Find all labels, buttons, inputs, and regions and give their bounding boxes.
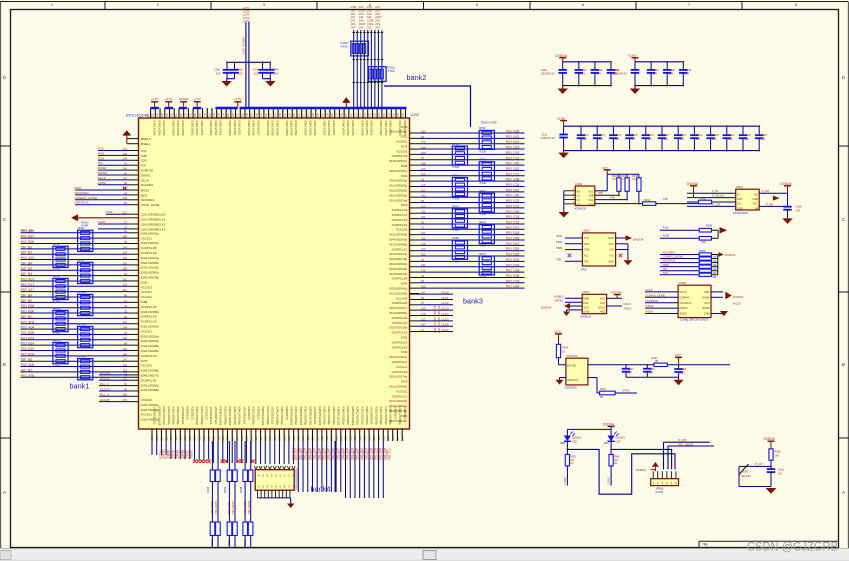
svg-text:PIO_D31: PIO_D31 bbox=[506, 204, 520, 208]
svg-text:IO2/LVDS6: IO2/LVDS6 bbox=[157, 121, 161, 136]
svg-text:46: 46 bbox=[124, 293, 127, 297]
svg-text:2V5: 2V5 bbox=[375, 5, 380, 9]
svg-text:TDO: TDO bbox=[556, 240, 563, 244]
svg-text:R309: R309 bbox=[699, 249, 706, 253]
svg-text:SW-KEY: SW-KEY bbox=[741, 474, 751, 478]
svg-text:IO2/LVDS3: IO2/LVDS3 bbox=[190, 121, 194, 136]
svg-text:229: 229 bbox=[263, 436, 267, 441]
svg-text:IO2/LVDS45p: IO2/LVDS45p bbox=[365, 407, 369, 426]
svg-text:IO3/LVDS56p: IO3/LVDS56p bbox=[171, 407, 175, 426]
svg-text:102: 102 bbox=[421, 317, 426, 321]
svg-text:33: 33 bbox=[421, 274, 424, 278]
svg-text:IO3/LVDS6: IO3/LVDS6 bbox=[351, 121, 355, 136]
svg-text:CSDN @GJZGRB: CSDN @GJZGRB bbox=[747, 539, 838, 553]
svg-text:IO2/LVDS61p: IO2/LVDS61p bbox=[389, 287, 408, 291]
svg-text:IO4/LVDS33p: IO4/LVDS33p bbox=[389, 262, 408, 266]
svg-text:CLK7: CLK7 bbox=[442, 328, 449, 332]
svg-text:PIO_A30: PIO_A30 bbox=[21, 374, 34, 378]
svg-text:201: 201 bbox=[421, 291, 426, 295]
svg-text:JTAG: JTAG bbox=[580, 267, 587, 271]
svg-text:IO4/LVDS6: IO4/LVDS6 bbox=[389, 121, 393, 136]
svg-text:IO40: IO40 bbox=[401, 282, 408, 286]
svg-text:TCK: TCK bbox=[584, 236, 589, 240]
svg-text:PIO_C15: PIO_C15 bbox=[506, 215, 520, 219]
svg-text:170: 170 bbox=[421, 269, 426, 273]
svg-text:104: 104 bbox=[359, 25, 364, 29]
svg-text:IO/DPCLK8: IO/DPCLK8 bbox=[392, 301, 408, 305]
svg-text:142: 142 bbox=[164, 436, 168, 441]
svg-text:109: 109 bbox=[123, 167, 128, 171]
svg-text:VCC: VCC bbox=[609, 242, 615, 246]
svg-text:IO3/LVDS7: IO3/LVDS7 bbox=[365, 121, 369, 136]
svg-text:IO3/LVDS5: IO3/LVDS5 bbox=[403, 121, 407, 136]
svg-text:194: 194 bbox=[254, 436, 258, 441]
svg-text:140: 140 bbox=[123, 176, 128, 180]
svg-text:C315: C315 bbox=[631, 133, 638, 137]
svg-text:+2.5V: +2.5V bbox=[243, 19, 250, 23]
svg-text:CLK0: CLK0 bbox=[442, 291, 449, 295]
svg-text:IO4/LVDS52p: IO4/LVDS52p bbox=[384, 407, 388, 426]
svg-text:GND OUT: GND OUT bbox=[567, 379, 579, 382]
svg-text:+2.5V: +2.5V bbox=[165, 97, 173, 101]
svg-text:IO2/LVDS18p: IO2/LVDS18p bbox=[389, 326, 408, 330]
svg-text:104: 104 bbox=[123, 256, 128, 260]
svg-text:87: 87 bbox=[421, 301, 424, 305]
svg-text:R315: R315 bbox=[206, 486, 210, 493]
svg-text:PLL_2: PLL_2 bbox=[100, 382, 109, 386]
svg-text:IO/DPCLK3: IO/DPCLK3 bbox=[392, 223, 408, 227]
svg-text:LED1: LED1 bbox=[607, 477, 611, 485]
svg-text:211: 211 bbox=[311, 436, 315, 441]
svg-text:IO/DPCLK501: IO/DPCLK501 bbox=[299, 407, 303, 426]
svg-text:IO1/LVDS14p: IO1/LVDS14p bbox=[389, 198, 408, 202]
svg-text:209: 209 bbox=[249, 436, 253, 441]
svg-text:IO3/LVDS6: IO3/LVDS6 bbox=[266, 121, 270, 136]
svg-text:LED: LED bbox=[616, 439, 621, 443]
svg-text:100UF/6.3V: 100UF/6.3V bbox=[613, 72, 627, 76]
svg-text:0R: 0R bbox=[600, 396, 603, 399]
svg-text:IO960123: IO960123 bbox=[285, 407, 289, 421]
svg-text:D: D bbox=[842, 75, 845, 80]
svg-text:C334: C334 bbox=[367, 22, 374, 26]
svg-text:DATA0: DATA0 bbox=[555, 298, 564, 302]
svg-text:IO4/LVDS1: IO4/LVDS1 bbox=[195, 121, 199, 136]
svg-text:12: 12 bbox=[124, 299, 127, 303]
svg-text:A: A bbox=[842, 490, 845, 495]
svg-text:104: 104 bbox=[359, 15, 364, 19]
svg-text:IO75: IO75 bbox=[141, 359, 148, 363]
svg-text:4*10K: 4*10K bbox=[479, 212, 486, 216]
svg-text:IO3/LVDS32p: IO3/LVDS32p bbox=[233, 407, 237, 426]
svg-text:104: 104 bbox=[649, 372, 654, 375]
svg-text:209: 209 bbox=[421, 151, 426, 155]
svg-text:143: 143 bbox=[123, 245, 128, 249]
svg-text:A: A bbox=[3, 490, 6, 495]
svg-text:PIO_D12: PIO_D12 bbox=[506, 167, 520, 171]
svg-text:A2: A2 bbox=[577, 198, 581, 202]
svg-text:bank4: bank4 bbox=[311, 484, 331, 493]
svg-text:R302: R302 bbox=[600, 388, 607, 391]
svg-text:RP318: RP318 bbox=[78, 322, 86, 326]
svg-text:IO2/LVDS70p: IO2/LVDS70p bbox=[323, 407, 327, 426]
svg-text:TCK: TCK bbox=[663, 271, 669, 275]
svg-text:VCCIO3: VCCIO3 bbox=[141, 285, 153, 289]
svg-text:VCCIO30123: VCCIO30123 bbox=[153, 407, 157, 425]
svg-text:127: 127 bbox=[287, 436, 291, 441]
svg-text:IO36: IO36 bbox=[401, 350, 408, 354]
svg-text:162: 162 bbox=[358, 436, 362, 441]
svg-text:IO/DPCLK801: IO/DPCLK801 bbox=[351, 407, 355, 426]
svg-text:69: 69 bbox=[124, 201, 127, 205]
svg-text:IO1/LVDS96p: IO1/LVDS96p bbox=[389, 242, 408, 246]
svg-text:IO2/LVDS68p: IO2/LVDS68p bbox=[141, 388, 160, 392]
svg-text:DCLK: DCLK bbox=[646, 288, 653, 292]
svg-text:106: 106 bbox=[188, 436, 192, 441]
svg-text:P_DO: P_DO bbox=[762, 189, 769, 193]
svg-text:ASD: ASD bbox=[600, 310, 606, 314]
svg-text:CONFIG_DONE: CONFIG_DONE bbox=[75, 196, 98, 200]
svg-text:4*10K: 4*10K bbox=[452, 197, 459, 201]
svg-text:IO/DPCLK7: IO/DPCLK7 bbox=[392, 360, 408, 364]
svg-text:C310: C310 bbox=[375, 15, 382, 19]
svg-text:IO/DPCLK301: IO/DPCLK301 bbox=[318, 407, 322, 426]
svg-text:179: 179 bbox=[179, 436, 183, 441]
svg-text:PIO_D09: PIO_D09 bbox=[506, 237, 520, 241]
svg-text:MCS0: MCS0 bbox=[702, 306, 710, 310]
svg-text:IO/DPCLK8: IO/DPCLK8 bbox=[141, 251, 157, 255]
svg-text:202: 202 bbox=[123, 393, 128, 397]
svg-text:IO3/LVDS9: IO3/LVDS9 bbox=[275, 121, 279, 136]
svg-text:C308: C308 bbox=[685, 68, 692, 72]
svg-text:139: 139 bbox=[306, 436, 310, 441]
svg-text:IO3/LVDS89p: IO3/LVDS89p bbox=[266, 407, 270, 426]
svg-text:190: 190 bbox=[123, 352, 128, 356]
svg-text:4*10K: 4*10K bbox=[53, 300, 60, 304]
svg-text:VCCIO4: VCCIO4 bbox=[396, 228, 408, 232]
svg-text:C317: C317 bbox=[580, 68, 587, 72]
svg-text:VCC: VCC bbox=[583, 305, 589, 309]
svg-text:126: 126 bbox=[221, 436, 225, 441]
svg-text:C304: C304 bbox=[649, 368, 656, 371]
svg-text:IO3/LVDS84p: IO3/LVDS84p bbox=[167, 407, 171, 426]
svg-text:IO3/LVDS1: IO3/LVDS1 bbox=[238, 121, 242, 136]
svg-text:U300: U300 bbox=[679, 281, 687, 285]
svg-text:91: 91 bbox=[124, 229, 127, 233]
svg-text:209: 209 bbox=[421, 129, 426, 133]
svg-text:60: 60 bbox=[124, 272, 127, 276]
svg-text:10K: 10K bbox=[775, 454, 780, 457]
svg-text:IO/DPCLK3: IO/DPCLK3 bbox=[392, 213, 408, 217]
svg-text:IO1/LVDS45p: IO1/LVDS45p bbox=[223, 407, 227, 426]
svg-text:1K: 1K bbox=[562, 349, 565, 353]
svg-text:DI/4_A0: DI/4_A0 bbox=[21, 229, 33, 233]
svg-text:VCCIO2: VCCIO2 bbox=[396, 149, 408, 153]
svg-text:R300: R300 bbox=[562, 345, 569, 349]
svg-text:ASDO: ASDO bbox=[646, 310, 654, 314]
svg-text:187: 187 bbox=[268, 436, 272, 441]
svg-text:IO/MCS0: IO/MCS0 bbox=[141, 169, 154, 173]
svg-text:IO780123: IO780123 bbox=[256, 407, 260, 421]
svg-text:127: 127 bbox=[183, 436, 187, 441]
svg-text:RCS0: RCS0 bbox=[733, 301, 741, 305]
svg-text:110: 110 bbox=[235, 436, 239, 441]
svg-text:C311: C311 bbox=[596, 68, 603, 72]
svg-text:PIO_A05: PIO_A05 bbox=[21, 363, 34, 367]
svg-text:PIO_D15: PIO_D15 bbox=[506, 253, 520, 257]
svg-text:IO1/LVDS59p: IO1/LVDS59p bbox=[389, 291, 408, 295]
svg-text:IO2/LVDS78p: IO2/LVDS78p bbox=[389, 257, 408, 261]
svg-text:178: 178 bbox=[421, 312, 426, 316]
svg-text:26: 26 bbox=[421, 279, 424, 283]
svg-text:141: 141 bbox=[174, 436, 178, 441]
svg-text:104: 104 bbox=[351, 25, 356, 29]
svg-text:PIO_D24: PIO_D24 bbox=[506, 263, 520, 267]
svg-text:10K: 10K bbox=[712, 276, 717, 279]
svg-text:LED0: LED0 bbox=[563, 477, 567, 485]
svg-text:C310: C310 bbox=[613, 68, 620, 72]
svg-text:GND: GND bbox=[583, 310, 589, 314]
svg-text:R348: R348 bbox=[239, 486, 243, 493]
svg-text:PIO_B13: PIO_B13 bbox=[21, 283, 34, 287]
svg-text:PIO_D08: PIO_D08 bbox=[506, 178, 520, 182]
svg-text:122: 122 bbox=[363, 436, 367, 441]
svg-text:DIF_B0: DIF_B0 bbox=[21, 299, 32, 303]
svg-text:0R: 0R bbox=[655, 360, 658, 363]
svg-text:180: 180 bbox=[123, 235, 128, 239]
svg-text:78: 78 bbox=[124, 331, 127, 335]
svg-text:U401: U401 bbox=[736, 185, 744, 189]
svg-text:73: 73 bbox=[124, 371, 127, 375]
svg-text:206: 206 bbox=[123, 152, 128, 156]
svg-text:104: 104 bbox=[367, 12, 372, 16]
svg-text:19: 19 bbox=[124, 225, 127, 229]
svg-text:PIO_A17: PIO_A17 bbox=[21, 288, 34, 292]
svg-text:SCL: SCL bbox=[589, 198, 595, 202]
svg-text:IO1/LVDS94p: IO1/LVDS94p bbox=[389, 233, 408, 237]
svg-text:MCE: MCE bbox=[141, 193, 148, 197]
svg-text:233: 233 bbox=[123, 196, 128, 200]
svg-text:170: 170 bbox=[123, 147, 128, 151]
svg-text:VCCIO1: VCCIO1 bbox=[141, 329, 153, 333]
svg-text:RP36: RP36 bbox=[78, 258, 85, 262]
svg-text:IO/DPCLK9: IO/DPCLK9 bbox=[392, 370, 408, 374]
svg-text:N.C: N.C bbox=[610, 254, 615, 258]
svg-text:MCS0: MCS0 bbox=[98, 166, 107, 170]
svg-text:PIO57: PIO57 bbox=[189, 450, 193, 458]
svg-text:P_CS0: P_CS0 bbox=[712, 202, 721, 206]
svg-text:+2.5V: +2.5V bbox=[234, 97, 242, 101]
svg-text:IO/DPCLK0: IO/DPCLK0 bbox=[392, 321, 408, 325]
svg-text:SCK: SCK bbox=[737, 197, 743, 201]
svg-text:110: 110 bbox=[123, 347, 128, 351]
svg-text:IO4/LVDS77p: IO4/LVDS77p bbox=[141, 374, 160, 378]
svg-text:R3010 4*10R: R3010 4*10R bbox=[481, 121, 497, 125]
svg-text:IO/DPCLK5: IO/DPCLK5 bbox=[141, 354, 157, 358]
svg-text:IO2/LVDS6: IO2/LVDS6 bbox=[171, 121, 175, 136]
svg-text:LED: LED bbox=[572, 439, 577, 443]
svg-text:PIO_D21: PIO_D21 bbox=[506, 226, 520, 230]
svg-text:TMS: TMS bbox=[584, 248, 590, 252]
svg-text:60: 60 bbox=[124, 387, 127, 391]
svg-text:RP45: RP45 bbox=[452, 142, 459, 146]
svg-text:VCCIO40123: VCCIO40123 bbox=[181, 407, 185, 425]
svg-text:DCLK: DCLK bbox=[598, 305, 605, 309]
svg-text:186: 186 bbox=[391, 436, 395, 441]
svg-text:IO4/LVDS84p: IO4/LVDS84p bbox=[294, 407, 298, 426]
svg-text:PIO_LED01: PIO_LED01 bbox=[679, 442, 694, 446]
svg-text:113: 113 bbox=[421, 183, 426, 187]
svg-text:196: 196 bbox=[123, 336, 128, 340]
svg-text:180: 180 bbox=[123, 267, 128, 271]
svg-text:C324: C324 bbox=[359, 8, 366, 12]
svg-text:71: 71 bbox=[421, 226, 424, 230]
svg-text:90: 90 bbox=[421, 135, 424, 139]
svg-text:IO700123: IO700123 bbox=[205, 407, 209, 421]
svg-text:IO/DPCLK8: IO/DPCLK8 bbox=[392, 316, 408, 320]
svg-text:XTAL300: XTAL300 bbox=[566, 354, 578, 358]
svg-text:IO/DPCLK9: IO/DPCLK9 bbox=[392, 218, 408, 222]
svg-text:RP42: RP42 bbox=[479, 189, 486, 193]
svg-text:A1: A1 bbox=[577, 194, 581, 198]
svg-text:99: 99 bbox=[421, 220, 424, 224]
svg-text:R3011: R3011 bbox=[388, 66, 396, 70]
svg-text:C328: C328 bbox=[359, 22, 366, 26]
svg-text:PIO_D22: PIO_D22 bbox=[506, 242, 520, 246]
svg-text:IO/DPCLK8: IO/DPCLK8 bbox=[392, 154, 408, 158]
svg-text:IO2/LVDS8: IO2/LVDS8 bbox=[289, 121, 293, 136]
svg-text:IO2/LVDS79p: IO2/LVDS79p bbox=[162, 407, 166, 426]
svg-text:ADS1110A0: ADS1110A0 bbox=[733, 211, 748, 215]
svg-text:LED300: LED300 bbox=[572, 436, 582, 440]
svg-text:IO82: IO82 bbox=[401, 336, 408, 340]
svg-text:DVDDA: DVDDA bbox=[725, 253, 736, 257]
svg-text:CLKUSR/DBCLK0: CLKUSR/DBCLK0 bbox=[141, 213, 166, 217]
svg-text:C307: C307 bbox=[628, 368, 635, 371]
svg-text:19: 19 bbox=[124, 382, 127, 386]
svg-text:DVDDA: DVDDA bbox=[733, 295, 744, 299]
svg-text:IO3/LVDS41p: IO3/LVDS41p bbox=[141, 231, 160, 235]
svg-text:C: C bbox=[842, 217, 845, 222]
svg-text:4*10K: 4*10K bbox=[479, 181, 486, 185]
svg-text:IO3/LVDS61p: IO3/LVDS61p bbox=[389, 169, 408, 173]
svg-text:188: 188 bbox=[240, 436, 244, 441]
svg-text:RP41: RP41 bbox=[479, 158, 486, 162]
svg-text:196: 196 bbox=[197, 436, 201, 441]
svg-text:103: 103 bbox=[778, 472, 783, 475]
svg-text:PIO_CLK03 PIO_V4: PIO_CLK03 PIO_V4 bbox=[437, 305, 441, 333]
svg-text:107: 107 bbox=[396, 436, 400, 441]
svg-text:IO3/LVDS10p: IO3/LVDS10p bbox=[141, 256, 160, 260]
svg-text:NCONFIG: NCONFIG bbox=[75, 191, 90, 195]
svg-text:C300: C300 bbox=[541, 68, 548, 72]
svg-text:P_VB: P_VB bbox=[766, 202, 773, 206]
svg-text:C312: C312 bbox=[653, 68, 660, 72]
svg-text:VCC: VCC bbox=[753, 202, 759, 206]
svg-text:197: 197 bbox=[386, 436, 390, 441]
svg-text:C400: C400 bbox=[796, 205, 803, 209]
svg-text:DVDDA: DVDDA bbox=[633, 237, 644, 241]
svg-text:IO4/LVDS30p: IO4/LVDS30p bbox=[356, 407, 360, 426]
svg-text:RP321: RP321 bbox=[53, 338, 61, 342]
svg-text:210: 210 bbox=[292, 436, 296, 441]
svg-text:IO3/LVDS61p: IO3/LVDS61p bbox=[141, 334, 160, 338]
svg-text:142: 142 bbox=[123, 363, 128, 367]
svg-text:IO3/LVDS60p: IO3/LVDS60p bbox=[389, 355, 408, 359]
svg-text:198: 198 bbox=[421, 162, 426, 166]
svg-text:IO1/LVDS58p: IO1/LVDS58p bbox=[200, 407, 204, 426]
svg-text:151: 151 bbox=[123, 398, 128, 402]
svg-text:XTAL: XTAL bbox=[623, 389, 631, 393]
svg-text:VCCIO20123: VCCIO20123 bbox=[313, 407, 317, 425]
svg-text:MCE: MCE bbox=[75, 186, 82, 190]
svg-text:TMS: TMS bbox=[98, 151, 105, 155]
svg-text:IO/DPCLK8: IO/DPCLK8 bbox=[141, 246, 157, 250]
svg-text:GND: GND bbox=[704, 290, 710, 294]
svg-text:VCCIO30123: VCCIO30123 bbox=[242, 407, 246, 425]
svg-text:168: 168 bbox=[348, 436, 352, 441]
svg-text:104: 104 bbox=[664, 137, 669, 141]
svg-text:5.1K: 5.1K bbox=[612, 178, 617, 181]
svg-text:5: 5 bbox=[476, 3, 478, 7]
svg-text:IO2/LVDS95p: IO2/LVDS95p bbox=[176, 407, 180, 426]
svg-text:OSC5032: OSC5032 bbox=[565, 385, 578, 389]
svg-text:PIO_D18: PIO_D18 bbox=[506, 231, 520, 235]
svg-text:IO93: IO93 bbox=[401, 174, 408, 178]
svg-text:4*10R: 4*10R bbox=[81, 224, 88, 228]
svg-text:RP324: RP324 bbox=[78, 354, 86, 358]
svg-text:IO2/LVDS34p: IO2/LVDS34p bbox=[280, 407, 284, 426]
svg-text:PIO_B07: PIO_B07 bbox=[21, 336, 34, 340]
svg-text:TDO: TDO bbox=[584, 242, 589, 246]
svg-text:DVDDA: DVDDA bbox=[636, 468, 647, 472]
svg-text:2: 2 bbox=[157, 3, 159, 7]
svg-text:182: 182 bbox=[353, 436, 357, 441]
svg-text:D: D bbox=[3, 75, 6, 80]
svg-text:RP43: RP43 bbox=[479, 220, 486, 224]
svg-text:CLK2: CLK2 bbox=[442, 301, 449, 305]
svg-text:2V5: 2V5 bbox=[375, 22, 380, 26]
svg-text:129: 129 bbox=[169, 436, 173, 441]
svg-text:IO630123: IO630123 bbox=[403, 407, 407, 421]
svg-text:VCCIO1: VCCIO1 bbox=[141, 413, 153, 417]
svg-text:IO/DPCLK3: IO/DPCLK3 bbox=[392, 331, 408, 335]
svg-text:IO4/LVDS54p: IO4/LVDS54p bbox=[238, 407, 242, 426]
svg-text:D31: D31 bbox=[604, 441, 609, 445]
svg-text:4*10K: 4*10K bbox=[479, 244, 486, 248]
svg-text:DONE: DONE bbox=[702, 295, 710, 299]
svg-text:IO1/LVDS37p: IO1/LVDS37p bbox=[141, 241, 160, 245]
svg-text:IO1/LVDS8: IO1/LVDS8 bbox=[398, 121, 402, 136]
svg-text:119: 119 bbox=[212, 436, 216, 441]
svg-text:2V5: 2V5 bbox=[351, 19, 356, 23]
svg-text:103: 103 bbox=[273, 436, 277, 441]
svg-text:P300 HEADER10: P300 HEADER10 bbox=[295, 467, 299, 490]
svg-text:NCONFIG: NCONFIG bbox=[646, 299, 658, 303]
svg-text:IO2/LVDS2: IO2/LVDS2 bbox=[323, 121, 327, 136]
svg-text:IO18: IO18 bbox=[401, 380, 408, 384]
svg-text:IO840123: IO840123 bbox=[393, 407, 397, 421]
svg-text:C323: C323 bbox=[761, 133, 768, 137]
svg-text:PLL_4: PLL_4 bbox=[100, 393, 109, 397]
svg-text:104: 104 bbox=[628, 372, 633, 375]
svg-text:IO1/LVDS7: IO1/LVDS7 bbox=[256, 121, 260, 136]
svg-text:PIO_C00: PIO_C00 bbox=[506, 194, 520, 198]
svg-text:2V5: 2V5 bbox=[375, 12, 380, 16]
svg-text:PIO_C31: PIO_C31 bbox=[506, 183, 520, 187]
svg-text:2V5: 2V5 bbox=[359, 12, 364, 16]
svg-text:IO2/LVDS3: IO2/LVDS3 bbox=[209, 121, 213, 136]
svg-text:30: 30 bbox=[124, 171, 127, 175]
